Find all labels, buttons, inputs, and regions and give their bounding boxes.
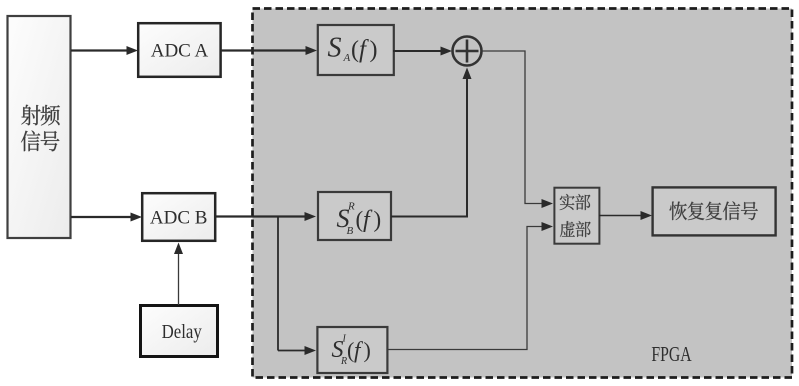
SBR(f) label [337, 201, 382, 238]
ADC A block [138, 23, 220, 77]
SA(f) block [318, 25, 394, 75]
实部/虚部 block [554, 188, 599, 244]
SBI(f) block [317, 327, 387, 373]
ADC B block [142, 193, 215, 241]
svg-text:): ) [364, 338, 371, 363]
svg-text:(: ( [351, 37, 359, 63]
svg-text:ADC A: ADC A [151, 41, 209, 62]
wire RF to ADC B [71, 216, 131, 218]
svg-text:ADC B: ADC B [150, 208, 208, 229]
branch wire down [277, 217, 279, 351]
svg-text:B: B [347, 225, 354, 237]
SBR(f) block [318, 192, 391, 240]
wire SBI out [387, 227, 543, 350]
svg-text:R: R [347, 201, 355, 213]
wire adder out [482, 51, 544, 204]
wire to output block [599, 215, 641, 217]
射频信号 label [21, 105, 60, 152]
branch wire to SBI(f) [278, 350, 305, 352]
SA(f) label [328, 33, 378, 65]
FPGA region (dashed boundary, gray fill) [253, 9, 793, 378]
wire SBR out, right then up to adder [391, 78, 467, 217]
虚部 label [560, 221, 591, 237]
wire Delay to ADC B [178, 252, 180, 305]
svg-text:FPGA: FPGA [651, 343, 692, 367]
SBI(f) label [332, 334, 371, 368]
Delay block [141, 306, 218, 357]
射频信号 source block [8, 16, 71, 238]
svg-text:I: I [342, 334, 347, 345]
svg-text:A: A [343, 52, 351, 64]
svg-text:): ) [374, 207, 382, 232]
实部 label [560, 194, 591, 210]
恢复复信号 label [670, 201, 758, 220]
wire ADC A to SA(f) [221, 49, 306, 51]
svg-text:S: S [328, 33, 342, 64]
svg-text:Delay: Delay [162, 321, 203, 343]
恢复复信号 block [653, 187, 776, 235]
wire SA(f) to adder [393, 50, 442, 52]
svg-text:): ) [370, 37, 378, 63]
adder [453, 37, 482, 66]
wire RF to ADC A [71, 49, 127, 51]
wire ADC B to SBR(f), with branch [216, 215, 306, 217]
